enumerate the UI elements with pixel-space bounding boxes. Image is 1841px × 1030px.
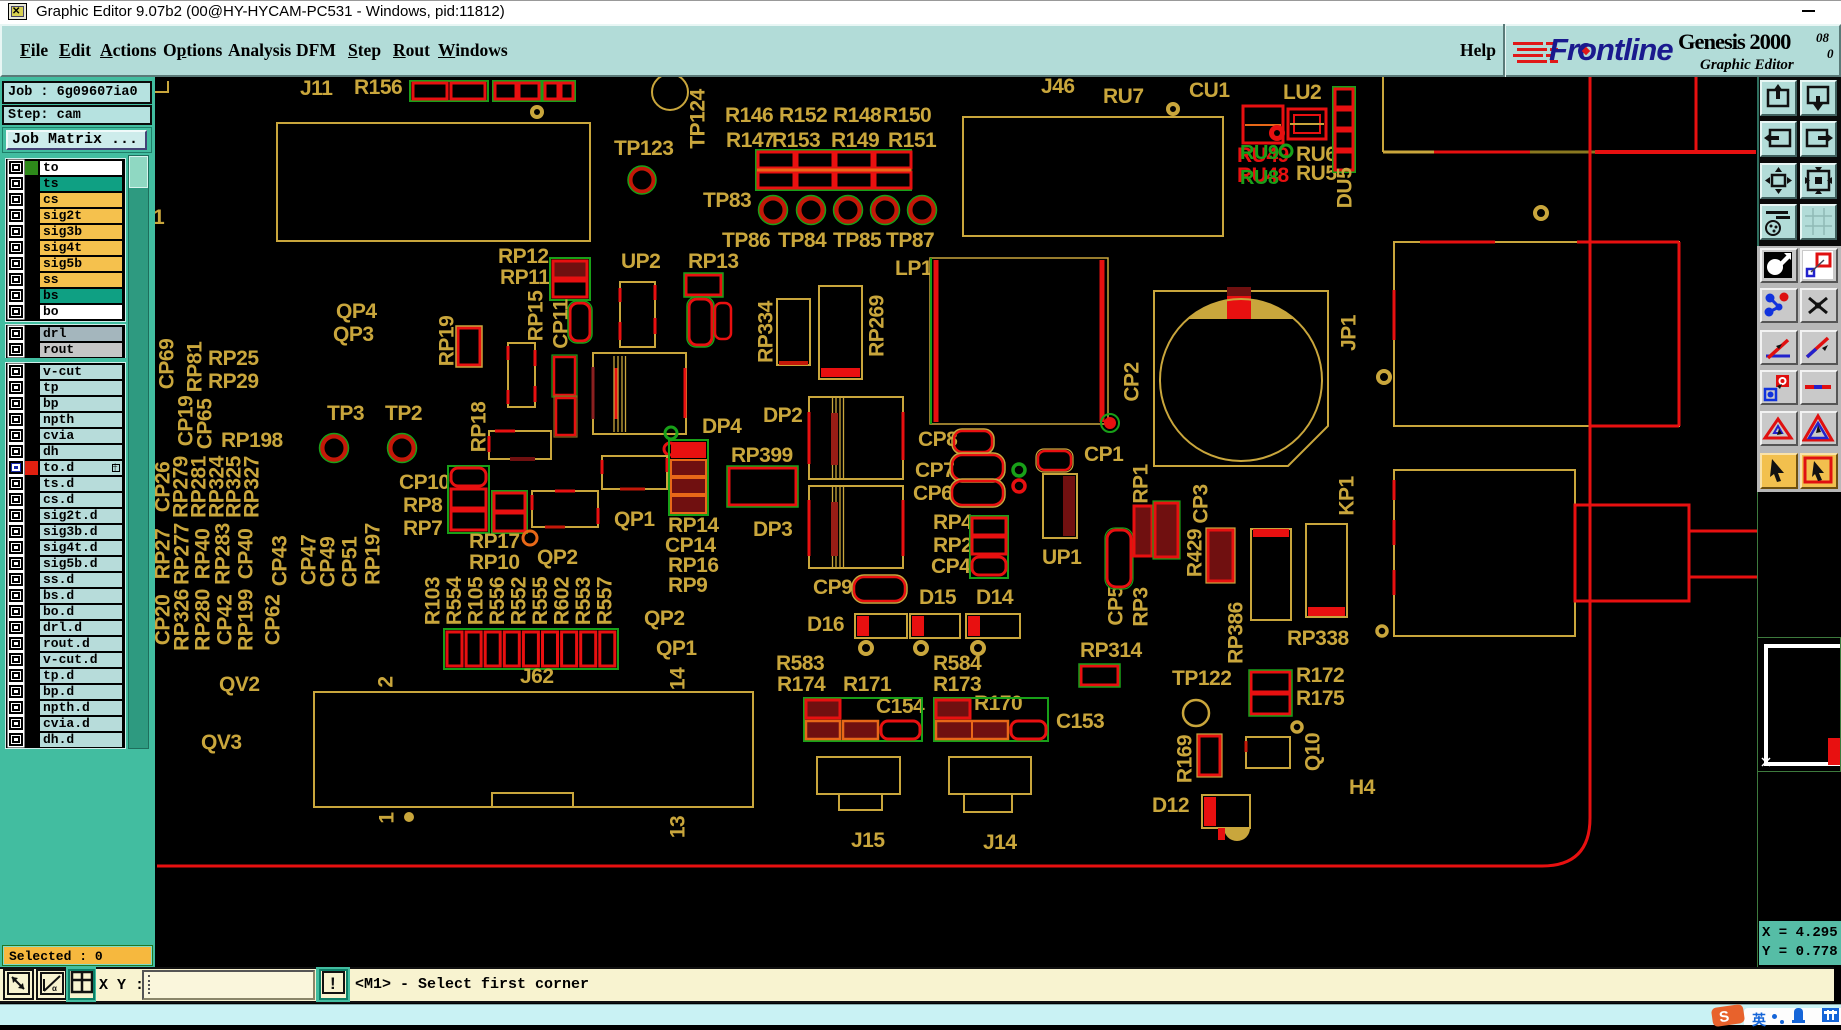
pad column 4: [875, 152, 911, 168]
R156 pads group 3: [543, 81, 575, 101]
svg-text:R555: R555: [529, 576, 552, 625]
svg-text:TP86: TP86: [722, 229, 770, 252]
capacitor CP2 body: [1154, 291, 1328, 466]
pad cell 7: [562, 632, 577, 666]
CP5 body: [1107, 530, 1131, 587]
svg-text:R156: R156: [354, 77, 402, 99]
svg-text:RP327: RP327: [241, 456, 264, 518]
svg-text:CP10: CP10: [399, 471, 450, 494]
pad ring orange: [523, 531, 537, 545]
via near CU1: [1168, 104, 1178, 114]
svg-text:QV3: QV3: [201, 731, 242, 754]
svg-text:RP9: RP9: [668, 574, 707, 597]
pad circle top (clipped): [652, 74, 688, 110]
svg-text:R583: R583: [776, 652, 824, 675]
marker rings under DP4: [665, 427, 677, 439]
resistor-pack RP338 body: [1306, 524, 1347, 617]
svg-text:QP1: QP1: [656, 637, 697, 660]
svg-text:RP19: RP19: [436, 316, 459, 367]
svg-text:CP49: CP49: [317, 537, 340, 588]
svg-text:R554: R554: [443, 576, 466, 625]
right resistor group bodies: [934, 698, 1048, 741]
svg-text:LP1: LP1: [895, 257, 933, 280]
svg-text:RP15: RP15: [525, 290, 548, 341]
svg-text:R552: R552: [508, 577, 531, 625]
svg-text:CP65: CP65: [194, 398, 217, 449]
svg-text:J11: J11: [300, 77, 333, 100]
pad cell 1: [447, 632, 462, 666]
svg-text:RU9: RU9: [1240, 142, 1279, 164]
svg-text:CP1: CP1: [1084, 443, 1124, 466]
svg-text:D15: D15: [919, 586, 957, 609]
svg-text:R152: R152: [779, 104, 827, 127]
svg-text:R169: R169: [1174, 735, 1197, 783]
svg-text:LU2: LU2: [1283, 81, 1321, 104]
svg-text:RP283: RP283: [212, 523, 235, 585]
svg-text:RP2: RP2: [933, 534, 972, 557]
svg-text:QP3: QP3: [333, 323, 374, 346]
svg-text:TP123: TP123: [614, 137, 673, 160]
svg-text:1: 1: [376, 812, 399, 824]
svg-text:TP122: TP122: [1172, 667, 1231, 690]
svg-text:TP3: TP3: [327, 402, 364, 425]
LP1 corner pad: [1104, 417, 1116, 429]
svg-text:R174: R174: [777, 673, 826, 696]
via right: [1535, 207, 1547, 219]
svg-text:RP326: RP326: [171, 589, 194, 651]
svg-text:R150: R150: [883, 104, 931, 127]
svg-text:TP124: TP124: [687, 88, 710, 148]
svg-text:2: 2: [375, 676, 398, 687]
svg-text:RP314: RP314: [1080, 639, 1143, 662]
svg-text:R151: R151: [888, 129, 937, 152]
D15 body: [910, 614, 960, 638]
svg-text:R149: R149: [831, 129, 879, 152]
svg-text:J62: J62: [520, 665, 554, 688]
svg-text:RP29: RP29: [208, 370, 259, 393]
capacitor CP13 body: [715, 303, 731, 339]
svg-text:TP83: TP83: [703, 189, 751, 212]
svg-text:Q10: Q10: [1302, 733, 1325, 771]
svg-text:RP17: RP17: [469, 530, 520, 553]
wire board outline red: [157, 77, 1590, 866]
svg-text:R172: R172: [1296, 664, 1344, 687]
wire red stub 2: [1689, 576, 1757, 579]
svg-text:DU5: DU5: [1334, 167, 1357, 208]
svg-text:TP85: TP85: [833, 229, 882, 252]
diode pads: [860, 642, 872, 654]
pad column 3: [836, 152, 872, 168]
D16 body: [855, 614, 907, 638]
svg-text:JP1: JP1: [1338, 314, 1361, 351]
svg-text:CP69: CP69: [156, 339, 179, 390]
svg-text:1: 1: [155, 206, 165, 229]
svg-text:CP42: CP42: [214, 595, 237, 646]
wire red horizontal top: [1595, 150, 1756, 154]
pad cell 4: [504, 632, 519, 666]
svg-text:RP399: RP399: [731, 444, 793, 467]
svg-text:R553: R553: [572, 577, 595, 625]
svg-text:DP2: DP2: [763, 404, 802, 427]
J62 resistor array pads: [444, 629, 618, 669]
svg-text:R170: R170: [974, 692, 1022, 715]
capacitor CP12 body: [689, 299, 712, 345]
svg-text:RP1: RP1: [1130, 464, 1153, 504]
svg-text:TP87: TP87: [886, 229, 934, 252]
svg-text:CP9: CP9: [813, 576, 852, 599]
component body (yellow w red corners): [532, 491, 598, 527]
svg-text:QP4: QP4: [336, 300, 377, 323]
svg-text:RP11: RP11: [500, 266, 550, 289]
DP2 body: [809, 397, 903, 479]
pad cell 5: [523, 632, 538, 666]
component body mid: [508, 343, 535, 407]
svg-text:CP5: CP5: [1105, 586, 1128, 626]
via left of KP1: [1377, 626, 1387, 636]
svg-text:RP12: RP12: [498, 245, 549, 268]
svg-text:CP43: CP43: [269, 536, 292, 587]
svg-text:D14: D14: [976, 586, 1014, 609]
svg-text:RP280: RP280: [192, 589, 215, 651]
svg-text:RU8: RU8: [1240, 167, 1279, 189]
svg-text:14: 14: [667, 667, 690, 690]
pad circle x848: [836, 198, 860, 222]
svg-text:J46: J46: [1041, 77, 1075, 98]
svg-text:RP7: RP7: [403, 517, 442, 540]
svg-text:RP197: RP197: [362, 523, 385, 585]
svg-text:R584: R584: [933, 652, 982, 675]
component left of RP338: [1251, 529, 1291, 620]
svg-text:QP2: QP2: [537, 546, 578, 569]
connector J15: [817, 757, 900, 794]
left resistor group bodies: [804, 698, 922, 741]
svg-text:α: α: [52, 984, 57, 993]
svg-text:CP6: CP6: [913, 482, 952, 505]
wire red vertical x1696: [1695, 77, 1698, 152]
pad cell 6: [543, 632, 558, 666]
svg-text:RP198: RP198: [221, 429, 284, 452]
pad circle x922: [910, 198, 934, 222]
pad cell 9: [600, 632, 615, 666]
svg-text:RP4: RP4: [933, 511, 973, 534]
svg-text:CP7: CP7: [915, 459, 954, 482]
svg-text:DP4: DP4: [702, 415, 742, 438]
svg-text:R148: R148: [833, 104, 882, 127]
svg-text:RP81: RP81: [184, 341, 207, 392]
svg-text:CP40: CP40: [235, 529, 258, 580]
small boxes right of tall comp: [554, 357, 575, 395]
wire corner mark top-left: [155, 81, 168, 92]
R156 pads group 1: [410, 81, 488, 101]
svg-text:H4: H4: [1349, 776, 1376, 799]
diode DU5 pads: [1333, 87, 1355, 172]
J62 connector body: [314, 692, 753, 807]
svg-text:C153: C153: [1056, 710, 1104, 733]
pad circle LU2: [1269, 125, 1285, 141]
svg-text:CP3: CP3: [1190, 484, 1213, 523]
svg-text:UP1: UP1: [1042, 546, 1082, 569]
svg-text:R556: R556: [486, 577, 509, 625]
svg-text:RP277: RP277: [171, 523, 194, 585]
svg-text:RP269: RP269: [866, 295, 889, 357]
svg-text:TP84: TP84: [778, 229, 827, 252]
pad column 2: [797, 152, 833, 168]
svg-text:R153: R153: [772, 129, 820, 152]
svg-text:R557: R557: [594, 577, 617, 625]
component above QP1: [602, 456, 667, 489]
svg-text:CP62: CP62: [262, 595, 285, 646]
pad column 1: [758, 152, 794, 168]
svg-text:TP2: TP2: [385, 402, 422, 425]
svg-text:RP199: RP199: [235, 589, 258, 651]
red connector right of KP1: [1575, 505, 1689, 601]
pad cell 2: [466, 632, 481, 666]
svg-text:RP13: RP13: [688, 250, 739, 273]
svg-text:R147: R147: [726, 129, 774, 152]
svg-text:R171: R171: [843, 673, 892, 696]
wire red stub 1: [1689, 530, 1757, 533]
svg-text:R175: R175: [1296, 687, 1345, 710]
via under R175: [1292, 722, 1302, 732]
svg-text:RP386: RP386: [1225, 602, 1248, 664]
component outline top right: [1382, 77, 1384, 152]
svg-text:13: 13: [667, 816, 690, 838]
svg-text:RP18: RP18: [468, 401, 491, 452]
capacitor CP11 body: [570, 303, 590, 341]
R156 pads group 2: [493, 81, 541, 101]
svg-text:CU1: CU1: [1189, 79, 1230, 102]
svg-text:D16: D16: [807, 613, 844, 636]
DP3 body: [809, 486, 903, 568]
pad circle x811: [799, 198, 823, 222]
svg-text:!: !: [330, 974, 336, 993]
svg-text:RU5: RU5: [1296, 162, 1337, 185]
svg-text:R146: R146: [725, 104, 773, 127]
D14 body: [966, 614, 1020, 638]
svg-text:R105: R105: [465, 576, 488, 625]
svg-text:D12: D12: [1152, 794, 1189, 817]
pad circle x885: [873, 198, 897, 222]
component body outline (large): [277, 123, 590, 241]
svg-text:CP51: CP51: [339, 536, 362, 587]
resistor-pack RP269: [819, 286, 862, 379]
via near R156: [532, 107, 542, 117]
component outline (red/yellow) right: [1394, 242, 1679, 426]
pad cell 8: [581, 632, 596, 666]
svg-text:RP338: RP338: [1287, 627, 1350, 650]
svg-text:R602: R602: [551, 577, 574, 625]
svg-text:CP2: CP2: [1121, 362, 1144, 401]
R429 body: [1208, 530, 1233, 581]
resistor array pads: [756, 150, 911, 190]
svg-text:RP3: RP3: [1130, 587, 1153, 626]
svg-text:QP1: QP1: [614, 508, 655, 531]
pad cell 3: [485, 632, 500, 666]
svg-text:UP2: UP2: [621, 250, 660, 273]
svg-text:RP8: RP8: [403, 494, 443, 517]
CP3/RP1 bodies: [1134, 506, 1152, 556]
svg-text:J14: J14: [983, 831, 1017, 854]
svg-text:RP10: RP10: [469, 551, 520, 574]
resistor-pack RP14 pads: [669, 440, 708, 515]
svg-text:DP3: DP3: [753, 518, 792, 541]
pad circle x773: [761, 198, 785, 222]
svg-text:RU7: RU7: [1103, 85, 1144, 108]
via left of JP1: [1378, 371, 1390, 383]
component big square DP area: [593, 353, 686, 434]
svg-text:RP334: RP334: [755, 300, 778, 363]
svg-text:QP2: QP2: [644, 607, 685, 630]
marker rings near CP7: [1013, 464, 1025, 476]
svg-text:CP4: CP4: [931, 555, 971, 578]
svg-text:R103: R103: [422, 577, 445, 625]
svg-text:J15: J15: [851, 829, 885, 852]
svg-text:QV2: QV2: [219, 673, 260, 696]
connector J14: [949, 757, 1031, 794]
svg-text:KP1: KP1: [1336, 476, 1359, 516]
svg-text:RP25: RP25: [208, 347, 259, 370]
svg-text:R429: R429: [1184, 529, 1207, 577]
